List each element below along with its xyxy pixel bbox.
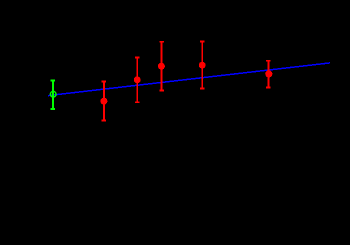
error bar R1 (red) <box>102 82 106 121</box>
error bar P1 (green) <box>51 81 55 109</box>
data point R5 (red circle) <box>265 70 272 77</box>
data point R4 (red circle) <box>199 62 206 69</box>
error bar R5 (red) <box>266 61 270 88</box>
error bar R3 (red) <box>159 42 163 91</box>
data point P1 (green open circle) <box>50 91 56 97</box>
data point R2 (red circle) <box>134 76 141 83</box>
error bar R4 (red) <box>200 42 204 89</box>
data point R3 (red circle) <box>158 63 165 70</box>
data point R1 (red circle) <box>100 98 107 105</box>
error bar R2 (red) <box>135 58 139 103</box>
fit line (blue) <box>48 63 330 96</box>
